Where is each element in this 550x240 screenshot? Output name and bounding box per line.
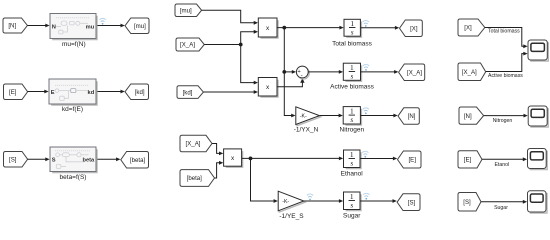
wire node J3 down to gain -1/YX_N	[284, 72, 295, 118]
from tag [X_A] (products)	[180, 135, 212, 151]
svg-text:1: 1	[350, 63, 354, 72]
wire product P2 to sum S1 minus input	[277, 78, 304, 87]
svg-text:[X]: [X]	[464, 25, 472, 32]
from tag [N] (display)	[459, 107, 484, 124]
svg-text:Total biomass: Total biomass	[332, 40, 372, 47]
wire subsystem mu=f(N) to goto [mu]	[97, 24, 124, 28]
signal label Total biomass	[488, 29, 520, 35]
goto tag [beta]	[121, 152, 149, 169]
svg-text:s: s	[350, 159, 353, 167]
svg-text:-1/YE_S: -1/YE_S	[279, 213, 304, 220]
svg-text:-: -	[301, 72, 303, 79]
logging badge on integrator Sugar	[363, 193, 369, 199]
label beta=f(S)	[60, 174, 87, 181]
svg-text:[mu]: [mu]	[180, 7, 192, 14]
svg-text:[N]: [N]	[8, 23, 16, 30]
from tag [X_A] (display)	[458, 63, 486, 81]
scope Nitrogen	[528, 106, 548, 127]
sum S1 (+/-)	[296, 66, 309, 79]
wire integrator Active biomass to goto [X_A]	[361, 70, 399, 74]
wire [E] to scope Etanol	[482, 157, 527, 161]
svg-text:Active biomass: Active biomass	[488, 73, 523, 79]
svg-text:beta: beta	[82, 158, 95, 164]
label kd=f(E)	[62, 106, 83, 113]
label -1/YE_S	[279, 213, 304, 220]
signal label Active biomass	[488, 73, 523, 79]
wire [N] to scope Nitrogen	[484, 114, 528, 118]
gain -1/YE_S	[278, 191, 305, 212]
svg-text:[beta]: [beta]	[187, 175, 203, 182]
svg-text:[X]: [X]	[410, 25, 418, 32]
wire node J1 down to product P2	[241, 45, 258, 85]
wire [S] to subsystem beta=f(S)	[28, 157, 50, 161]
svg-text:[X_A]: [X_A]	[186, 141, 201, 148]
logging badge on subsystem mu=f(N)	[100, 18, 106, 24]
wire subsystem beta=f(S) to goto [beta]	[97, 157, 120, 161]
wire [X_A] to node J1	[204, 44, 240, 46]
wire [kd] to product P2	[203, 90, 258, 94]
from tag [S]	[4, 152, 28, 168]
gain -1/YX_N	[296, 107, 321, 126]
svg-text:-1/YX_N: -1/YX_N	[294, 127, 319, 134]
integrator Ethanol 1/s	[344, 150, 362, 169]
svg-text:[beta]: [beta]	[130, 157, 146, 164]
wire product P3 to integrator Ethanol	[242, 157, 343, 161]
integrator Total biomass 1/s	[344, 19, 361, 37]
signal label Sugar	[494, 205, 508, 211]
svg-text:1: 1	[350, 106, 354, 115]
svg-text:[E]: [E]	[9, 89, 17, 96]
integrator Active biomass 1/s	[343, 63, 361, 81]
svg-text:Nitrogen: Nitrogen	[493, 118, 513, 124]
product P1 (mu*X_A)	[258, 18, 278, 38]
logging badge on gain -1/YE_S	[307, 194, 313, 200]
node J4 junction	[249, 157, 253, 161]
svg-text:kd=f(E): kd=f(E)	[62, 106, 83, 113]
subsystem kd=f(E)	[49, 79, 97, 105]
node J1 junction	[239, 43, 243, 47]
scope Sugar	[528, 191, 548, 213]
scope Total/Active biomass	[528, 40, 548, 61]
wire node J2 down to sum S1	[284, 28, 296, 74]
goto tag [X]	[400, 20, 423, 37]
node J2 junction	[282, 26, 286, 30]
wire integrator Total biomass to goto [X]	[361, 26, 400, 30]
svg-text:s: s	[350, 116, 353, 124]
wire product P1 to integrator Total biomass	[277, 26, 344, 30]
goto tag [mu]	[125, 18, 149, 34]
svg-text:E: E	[51, 90, 55, 96]
label Sugar	[343, 212, 361, 219]
from tag [E]	[4, 84, 28, 100]
wire integrator Ethanol to goto [E]	[360, 157, 397, 161]
goto tag [kd]	[125, 84, 149, 100]
svg-text:Etanol: Etanol	[494, 162, 509, 168]
logging badge on integrator Total biomass	[363, 21, 369, 27]
wire subsystem kd=f(E) to goto [kd]	[97, 90, 124, 94]
svg-text:1: 1	[350, 192, 354, 201]
from tag [mu] (growth)	[175, 4, 202, 17]
svg-text:S: S	[52, 158, 56, 164]
wire sum S1 to integrator Active biomass	[308, 70, 343, 74]
product P3 (beta*X_A)	[224, 149, 243, 167]
svg-text:[N]: [N]	[464, 113, 472, 120]
svg-text:Total biomass: Total biomass	[488, 29, 520, 35]
goto tag [N]	[398, 108, 419, 125]
subsystem beta=f(S)	[50, 147, 97, 173]
svg-text:1: 1	[350, 19, 354, 28]
svg-text:Ethanol: Ethanol	[341, 170, 364, 177]
svg-text:[E]: [E]	[464, 157, 472, 164]
svg-text:Sugar: Sugar	[343, 212, 361, 219]
wire [N] to subsystem mu=f(N)	[27, 24, 49, 28]
svg-text:[E]: [E]	[408, 157, 416, 164]
svg-text:mu=f(N): mu=f(N)	[62, 41, 86, 48]
product P2 (kd*X_A)	[258, 78, 278, 98]
from tag [X] (display)	[458, 19, 485, 36]
from tag [S] (display)	[458, 193, 481, 212]
svg-text:[X_A]: [X_A]	[180, 42, 195, 49]
from tag [kd] (decay)	[177, 86, 203, 99]
svg-text:s: s	[351, 28, 354, 36]
wire gain -1/YE_S to integrator Sugar	[304, 199, 343, 203]
wire integrator Sugar to goto [S]	[360, 199, 397, 203]
svg-text:Sugar: Sugar	[494, 205, 508, 211]
label Total biomass	[332, 40, 372, 47]
goto tag [S]	[397, 194, 420, 211]
svg-text:-K-: -K-	[282, 199, 289, 205]
svg-text:Nitrogen: Nitrogen	[340, 127, 365, 134]
wire [X_A] to scope Total biomass	[486, 52, 528, 72]
integrator Nitrogen 1/s	[343, 106, 361, 125]
svg-text:[kd]: [kd]	[135, 89, 145, 96]
label Ethanol	[341, 170, 364, 177]
from tag [E] (display)	[458, 151, 482, 168]
svg-text:Active biomass: Active biomass	[330, 83, 374, 90]
label Active biomass	[330, 83, 374, 90]
scope Etanol	[528, 149, 548, 170]
node J3 junction	[282, 70, 286, 74]
from tag [N]	[3, 18, 27, 33]
svg-text:[S]: [S]	[463, 199, 471, 206]
wire integrator Nitrogen to goto [N]	[361, 114, 398, 118]
wire [S] to scope Sugar	[481, 200, 527, 204]
wire [X] to scope Total biomass	[485, 28, 528, 49]
svg-text:[kd]: [kd]	[183, 89, 193, 96]
signal label Etanol	[494, 162, 509, 168]
logging badge on integrator Nitrogen	[363, 108, 369, 114]
integrator Sugar 1/s	[344, 192, 362, 211]
wire [beta] to product P3	[215, 161, 224, 178]
wire [X_A] to product P3	[212, 144, 223, 156]
svg-text:s: s	[350, 72, 353, 80]
svg-text:N: N	[52, 24, 56, 30]
svg-text:[N]: [N]	[408, 113, 416, 120]
label -1/YX_N	[294, 127, 319, 134]
goto tag [E]	[398, 151, 422, 168]
label Nitrogen	[340, 127, 365, 134]
from tag [X_A] (growth)	[176, 38, 204, 51]
svg-text:[X_A]: [X_A]	[407, 69, 422, 76]
svg-text:-K-: -K-	[300, 114, 307, 120]
wire gain -1/YX_N to integrator Nitrogen	[320, 114, 343, 118]
svg-text:s: s	[350, 201, 353, 209]
svg-text:[mu]: [mu]	[134, 23, 146, 30]
svg-text:[X_A]: [X_A]	[462, 69, 477, 76]
svg-text:1: 1	[350, 150, 354, 159]
logging badge on integrator Active biomass	[363, 64, 369, 70]
label mu=f(N)	[62, 41, 86, 48]
svg-text:beta=f(S): beta=f(S)	[60, 174, 87, 181]
svg-text:kd: kd	[88, 90, 95, 96]
svg-text:mu: mu	[86, 24, 95, 30]
signal label Nitrogen	[493, 118, 513, 124]
wire [mu] to product P1	[202, 10, 258, 25]
wire node J1 up to product P1	[241, 30, 258, 45]
svg-text:[S]: [S]	[9, 156, 17, 163]
subsystem mu=f(N)	[50, 14, 97, 40]
svg-text:[S]: [S]	[408, 199, 416, 206]
wire [E] to subsystem kd=f(E)	[28, 90, 49, 94]
wire node J4 down to gain -1/YE_S	[251, 158, 278, 203]
goto tag [X_A]	[399, 64, 425, 81]
logging badge on integrator Ethanol	[362, 151, 368, 157]
from tag [beta]	[180, 170, 215, 187]
